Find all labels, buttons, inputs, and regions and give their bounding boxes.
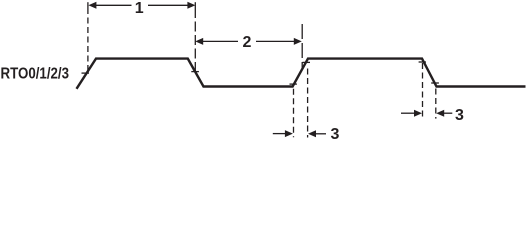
extension line at second rising edge mid (x=302) bbox=[301, 24, 303, 70]
dimension 1 left line bbox=[96, 4, 132, 6]
dimension 3 (rise time) left arrowhead pointing right bbox=[285, 130, 293, 137]
svg-text:3: 3 bbox=[455, 107, 464, 124]
dimension 2 left arrowhead bbox=[195, 38, 203, 45]
dimension 3 (rise time) left line bbox=[273, 133, 286, 135]
extension line below second rising edge high corner (x=307.6) bbox=[307, 69, 309, 138]
svg-text:2: 2 bbox=[242, 34, 251, 51]
dimension 1 right arrowhead bbox=[187, 2, 195, 9]
dimension 3 (fall time) right line bbox=[444, 112, 453, 114]
dimension 1 right line bbox=[148, 4, 188, 6]
svg-text:1: 1 bbox=[135, 0, 144, 17]
extension line below second falling edge low corner (x=435.8) bbox=[435, 89, 437, 119]
tick on second rising edge high corner bbox=[303, 61, 311, 63]
waveform RTO0/1/2/3 bbox=[77, 59, 526, 89]
dimension 2 left line bbox=[203, 40, 238, 42]
dimension 1 left arrowhead bbox=[88, 2, 96, 9]
tick on second rising edge low corner bbox=[290, 83, 297, 85]
dimension 3 (rise time) right line bbox=[316, 133, 326, 135]
dimension 2 right line bbox=[256, 40, 294, 42]
dimension 3 (fall time) right arrowhead pointing left bbox=[436, 110, 444, 117]
svg-text:RTO0/1/2/3: RTO0/1/2/3 bbox=[1, 65, 70, 82]
dimension 3 (rise time) right arrowhead pointing left bbox=[308, 130, 316, 137]
tick on first falling edge (50% point) bbox=[191, 71, 199, 73]
tick on first rising edge (50% point) bbox=[82, 72, 90, 74]
tick on second falling edge high corner bbox=[419, 61, 426, 63]
dimension 3 (fall time) left arrowhead pointing right bbox=[414, 110, 422, 117]
extension line below second rising edge low corner (x=293.5) bbox=[293, 89, 295, 138]
extension line at first falling edge (x=195) bbox=[194, 2, 196, 71]
tick on second falling edge low corner bbox=[431, 82, 439, 84]
extension line at first rising edge (x=88) bbox=[87, 2, 89, 72]
dimension 3 (fall time) left line bbox=[401, 112, 415, 114]
dimension 2 right arrowhead bbox=[294, 38, 302, 45]
extension line below second falling edge high corner (x=422.5) bbox=[422, 63, 424, 119]
svg-text:3: 3 bbox=[330, 126, 339, 140]
